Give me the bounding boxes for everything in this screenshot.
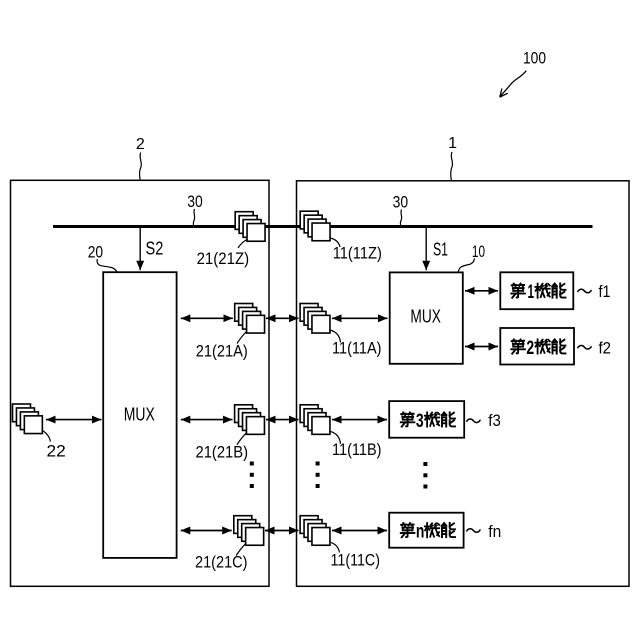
- svg-text:S2: S2: [146, 239, 164, 259]
- row C: arrow 11C to fn: [332, 530, 387, 532]
- row A: arrow mux20 to 21A: [181, 317, 233, 319]
- text dai-n-kinou: [401, 522, 455, 543]
- row B: arrow mux20 to 21B: [181, 419, 233, 421]
- leader 21C: [236, 544, 246, 556]
- signal S1 arrow: [425, 228, 427, 270]
- pad 11(11Z): [300, 211, 330, 241]
- leader 22: [43, 431, 51, 442]
- function box fn: [389, 513, 463, 548]
- svg-text:21(21C): 21(21C): [195, 553, 248, 572]
- row B: arrow between pads: [266, 419, 299, 421]
- function box f1: [500, 272, 573, 309]
- tilde f3: [466, 419, 480, 423]
- leader squiggle 30 right: [400, 210, 401, 226]
- leader 21Z: [238, 240, 247, 249]
- row A: arrow between pads: [266, 317, 299, 319]
- svg-text:f3: f3: [488, 411, 501, 430]
- svg-text:22: 22: [47, 442, 66, 461]
- pad 21(21C): [234, 516, 264, 546]
- svg-text:20: 20: [88, 243, 103, 262]
- leader 21B: [237, 433, 247, 445]
- bus 30: [53, 225, 593, 228]
- arrow 22 to mux20: [46, 419, 102, 421]
- text dai-1-kinou: [511, 282, 565, 303]
- arrow mux10 to f2: [465, 346, 498, 348]
- svg-text:30: 30: [393, 192, 409, 211]
- block 1 (right chip outline): [297, 181, 630, 587]
- leader 11C: [330, 542, 340, 552]
- leader hook 20: [97, 259, 117, 272]
- tilde f2: [578, 346, 592, 350]
- svg-text:21(21B): 21(21B): [196, 443, 249, 462]
- pad 22: [13, 404, 43, 434]
- pad 21(21B): [235, 405, 265, 435]
- pad 11(11C): [300, 516, 330, 546]
- row A: arrow 11A to mux10: [332, 317, 388, 319]
- svg-text:100: 100: [523, 49, 546, 68]
- row B: arrow 11B to f3: [332, 419, 387, 421]
- svg-text:2: 2: [526, 338, 534, 359]
- pad 11(11A): [300, 304, 330, 334]
- svg-text:21(21Z): 21(21Z): [197, 249, 250, 268]
- leader 11B: [330, 431, 341, 444]
- pad 21(21Z): [235, 212, 265, 242]
- row C: arrow mux20 to 21C: [181, 530, 232, 532]
- ellipsis dots right column: [423, 462, 427, 489]
- svg-text:11(11Z): 11(11Z): [333, 244, 382, 263]
- leader 21A: [237, 332, 247, 344]
- text dai-2-kinou: [511, 338, 565, 359]
- ellipsis dots left column: [250, 462, 254, 489]
- row C: arrow between pads: [265, 530, 299, 532]
- leader squiggle for 1: [451, 152, 453, 181]
- svg-text:3: 3: [416, 411, 424, 432]
- leader hook 10: [458, 258, 474, 272]
- function box f3: [389, 401, 464, 438]
- svg-text:n: n: [416, 522, 425, 543]
- pad 21(21A): [235, 304, 265, 334]
- svg-text:1: 1: [528, 282, 535, 303]
- svg-text:MUX: MUX: [124, 405, 155, 425]
- arrow mux10 to f1: [465, 290, 498, 292]
- function box f2: [500, 328, 574, 365]
- leader 11A: [330, 330, 341, 343]
- text dai-3-kinou: [401, 411, 455, 432]
- pad 11(11B): [300, 405, 330, 435]
- leader squiggle 30 left: [193, 209, 194, 226]
- svg-text:fn: fn: [488, 522, 501, 541]
- svg-text:1: 1: [448, 135, 457, 152]
- svg-text:10: 10: [472, 242, 485, 261]
- tilde f1: [578, 289, 592, 293]
- leader squiggle for 2: [140, 153, 142, 181]
- svg-text:MUX: MUX: [410, 307, 441, 327]
- svg-text:f1: f1: [599, 282, 611, 301]
- ellipsis dots middle column: [316, 462, 320, 489]
- block 2 (left chip outline): [11, 180, 270, 586]
- leader 11Z: [330, 238, 340, 247]
- mux 10 box: [390, 272, 463, 363]
- svg-text:30: 30: [187, 192, 203, 211]
- signal S2 arrow: [139, 228, 141, 270]
- leader arrow for 100: [500, 71, 527, 98]
- svg-text:f2: f2: [599, 338, 612, 357]
- svg-text:11(11C): 11(11C): [331, 551, 381, 570]
- mux 20 box: [103, 272, 176, 558]
- tilde fn: [466, 529, 480, 533]
- svg-text:11(11A): 11(11A): [332, 339, 382, 358]
- svg-text:21(21A): 21(21A): [196, 342, 248, 361]
- svg-text:11(11B): 11(11B): [332, 440, 382, 459]
- svg-text:2: 2: [136, 136, 145, 153]
- svg-text:S1: S1: [433, 240, 448, 260]
